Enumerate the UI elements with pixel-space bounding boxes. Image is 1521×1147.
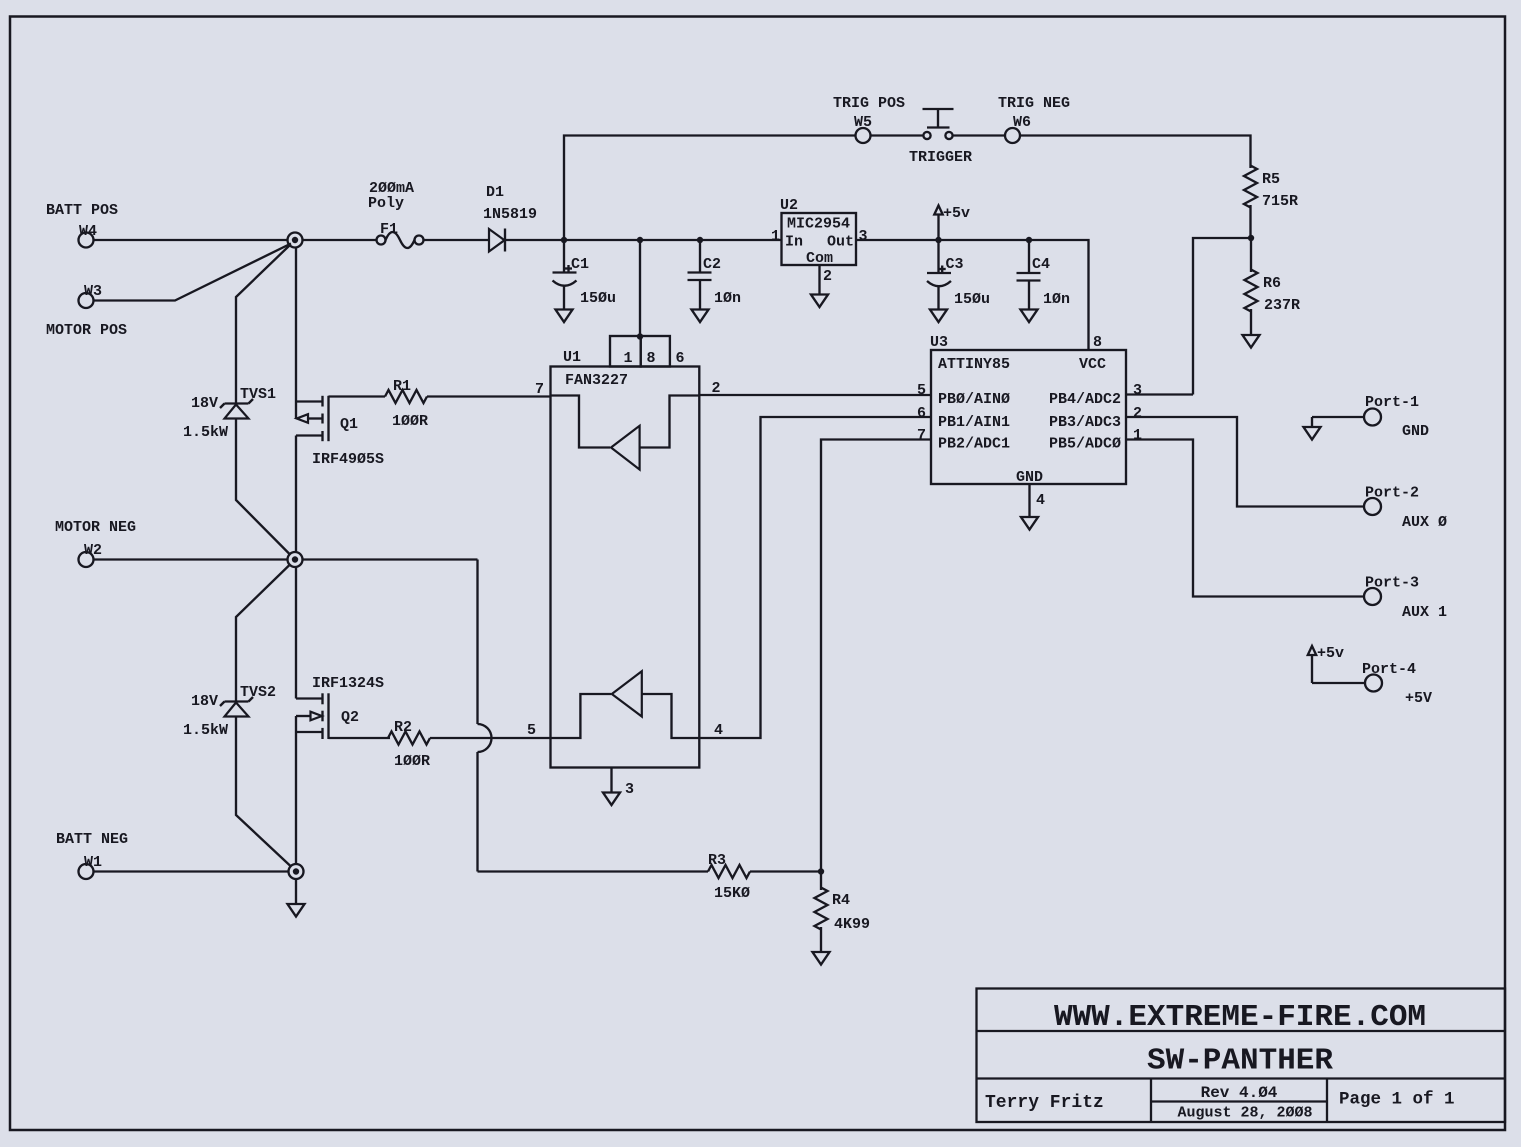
wire C4 tap to U3 VCC pin 8 — [1029, 240, 1089, 350]
mcu U3 ATTINY85 — [930, 334, 1126, 486]
wire node BATTPOS to Q1 source — [295, 248, 297, 402]
junction dot C4 tap — [1026, 237, 1032, 243]
svg-text:AUX Ø: AUX Ø — [1402, 514, 1447, 531]
junction dot +5v node — [935, 237, 941, 243]
title text author — [985, 1093, 1104, 1113]
wire W1 to node BATTNEG — [94, 870, 289, 872]
svg-text:C3: C3 — [946, 256, 964, 273]
regulator U2 MIC2954 — [780, 197, 856, 267]
svg-text:R5: R5 — [1262, 171, 1280, 188]
node BATTNEG junction — [289, 864, 304, 879]
port Port-3 AUX 1 — [1364, 575, 1447, 622]
wire W2 to node MOTORNEG — [94, 558, 288, 560]
svg-text:7: 7 — [535, 381, 544, 398]
svg-text:18V: 18V — [191, 395, 218, 412]
svg-text:2: 2 — [712, 380, 721, 397]
svg-text:4: 4 — [714, 722, 723, 739]
svg-text:2: 2 — [1133, 405, 1142, 422]
svg-text:ATTINY85: ATTINY85 — [938, 356, 1010, 373]
terminal W1 BATT NEG — [56, 831, 128, 879]
wire Q1 drain to node MOTORNEG — [295, 436, 297, 553]
U1 lower buffer channel — [551, 671, 700, 738]
svg-text:Port-3: Port-3 — [1365, 575, 1419, 592]
wire node BATTPOS to F1 — [303, 239, 377, 241]
wire U1 pin 4 to U3 pin 6 — [699, 405, 931, 739]
svg-text:237R: 237R — [1264, 297, 1300, 314]
svg-text:15Øu: 15Øu — [954, 291, 990, 308]
wire R1 to U1 pin 7 — [427, 381, 551, 398]
resistor R5 715R — [1244, 166, 1298, 239]
svg-text:1: 1 — [1133, 427, 1142, 444]
TVS diode TVS2 18V 1.5kW — [183, 684, 276, 739]
svg-text:C4: C4 — [1032, 256, 1050, 273]
title block frame — [977, 989, 1506, 1123]
svg-text:PB2/ADC1: PB2/ADC1 — [938, 436, 1010, 453]
svg-text:PB5/ADCØ: PB5/ADCØ — [1049, 436, 1121, 453]
junction dot C1 tap — [561, 237, 567, 243]
wire Q2 gate to R2 — [329, 737, 391, 739]
svg-text:Com: Com — [806, 250, 833, 267]
svg-text:6: 6 — [917, 405, 926, 422]
wire switch to W6 — [953, 134, 1006, 136]
wire node BATTPOS to TVS1 — [236, 245, 291, 404]
wire U3 pin 1 to Port-3 — [1126, 427, 1364, 597]
svg-text:W3: W3 — [84, 283, 102, 300]
svg-text:U1: U1 — [563, 349, 581, 366]
wire F1 to D1 — [424, 239, 490, 241]
wire node ADC1 up to U3 pin 7 — [821, 427, 931, 872]
resistor R2 100R — [388, 719, 430, 770]
svg-text:1Øn: 1Øn — [1043, 291, 1070, 308]
svg-text:IRF1324S: IRF1324S — [312, 675, 384, 692]
ground under C3 — [930, 310, 947, 323]
transistor Q2 IRF1324S — [296, 675, 384, 739]
diode D1 1N5819 — [483, 184, 537, 252]
wire W3 to node BATTPOS — [94, 244, 292, 301]
wire TVS1 to node MOTORNEG — [236, 419, 291, 556]
svg-text:Q2: Q2 — [341, 709, 359, 726]
svg-text:PBØ/AINØ: PBØ/AINØ — [938, 391, 1010, 408]
switch TRIGGER — [909, 109, 972, 166]
wire node MOTORNEG to TVS2 — [236, 564, 291, 702]
node BATTPOS junction — [288, 233, 303, 248]
svg-text:Port-2: Port-2 — [1365, 485, 1419, 502]
svg-text:Page 1 of 1: Page 1 of 1 — [1339, 1090, 1455, 1110]
resistor R6 237R — [1245, 238, 1301, 335]
svg-text:Out: Out — [827, 234, 854, 251]
wire sense drop vertical with hop — [478, 560, 492, 872]
fuse F1 — [368, 180, 424, 248]
svg-text:TVS1: TVS1 — [240, 386, 276, 403]
U1 upper buffer channel — [551, 396, 700, 470]
wire U1 pin 2 to U3 pin 5 — [699, 380, 931, 399]
svg-text:U2: U2 — [780, 197, 798, 214]
svg-text:GND: GND — [1016, 469, 1043, 486]
svg-text:6: 6 — [676, 350, 685, 367]
svg-text:R1: R1 — [393, 378, 411, 395]
ground under C1 — [556, 310, 573, 323]
svg-text:+5v: +5v — [943, 205, 970, 222]
svg-text:1ØØR: 1ØØR — [392, 413, 428, 430]
svg-text:2: 2 — [823, 268, 832, 285]
wire U2 pin 3 to +5v node — [856, 228, 939, 245]
svg-text:BATT POS: BATT POS — [46, 202, 118, 219]
svg-text:BATT NEG: BATT NEG — [56, 831, 128, 848]
wire Port-1 to ground — [1312, 417, 1364, 427]
wire node MOTORNEG to Q2 drain — [295, 567, 297, 699]
junction dot U1 supply tap — [637, 237, 643, 243]
terminal W2 MOTOR NEG — [55, 519, 136, 567]
junction dot divider node — [1248, 235, 1254, 241]
wire node MOTORNEG to sense drop — [303, 558, 478, 560]
svg-text:IRF49Ø5S: IRF49Ø5S — [312, 451, 384, 468]
junction dot node ADC1 — [818, 868, 824, 874]
svg-text:PB3/ADC3: PB3/ADC3 — [1049, 414, 1121, 431]
svg-text:C1: C1 — [571, 256, 589, 273]
svg-text:W1: W1 — [84, 854, 102, 871]
svg-text:1.5kW: 1.5kW — [183, 424, 228, 441]
transistor Q1 IRF4905S — [296, 396, 384, 468]
svg-text:+5V: +5V — [1405, 690, 1432, 707]
ground under C2 — [692, 310, 709, 323]
title text page — [1339, 1090, 1455, 1110]
svg-text:W2: W2 — [84, 542, 102, 559]
U3 pin 4 ground — [1021, 484, 1045, 530]
svg-text:GND: GND — [1402, 423, 1429, 440]
title text SW-PANTHER — [1147, 1044, 1333, 1079]
junction dot C2 tap — [697, 237, 703, 243]
svg-text:VCC: VCC — [1079, 356, 1106, 373]
svg-text:Q1: Q1 — [340, 416, 358, 433]
svg-text:W5: W5 — [854, 114, 872, 131]
terminal W6 TRIG NEG — [998, 95, 1070, 143]
driver U1 FAN3227 — [551, 336, 700, 768]
svg-text:Rev 4.Ø4: Rev 4.Ø4 — [1201, 1084, 1278, 1102]
+5v supply arrow — [934, 205, 970, 240]
svg-text:5: 5 — [527, 722, 536, 739]
svg-text:8: 8 — [1093, 334, 1102, 351]
wire +5v to Port-4 — [1312, 682, 1365, 684]
wire U3 pin 3 stub — [1126, 382, 1193, 399]
wire VBATT up to trigger rail — [564, 136, 856, 241]
svg-text:R2: R2 — [394, 719, 412, 736]
svg-text:+5v: +5v — [1317, 645, 1344, 662]
wire W4 to node BATTPOS — [94, 239, 288, 241]
svg-text:Port-1: Port-1 — [1365, 394, 1419, 411]
wire TVS2 to node BATTNEG — [236, 717, 291, 867]
wire U1 tap to C2 tap — [640, 239, 700, 241]
svg-text:18V: 18V — [191, 693, 218, 710]
svg-text:W4: W4 — [79, 223, 97, 240]
svg-text:Port-4: Port-4 — [1362, 661, 1416, 678]
resistor R3 15K0 — [708, 852, 750, 902]
wire W6 to R5 — [1020, 136, 1251, 169]
svg-text:7: 7 — [917, 427, 926, 444]
terminal W5 TRIG POS — [833, 95, 905, 143]
svg-text:3: 3 — [625, 781, 634, 798]
svg-text:15KØ: 15KØ — [714, 885, 750, 902]
wire C1 tap to U1 tap — [564, 239, 640, 241]
+5v arrow at Port-4 — [1308, 645, 1344, 683]
svg-text:TVS2: TVS2 — [240, 684, 276, 701]
svg-text:PB4/ADC2: PB4/ADC2 — [1049, 391, 1121, 408]
svg-text:1Øn: 1Øn — [714, 290, 741, 307]
svg-text:MOTOR POS: MOTOR POS — [46, 322, 127, 339]
svg-text:1ØØR: 1ØØR — [394, 753, 430, 770]
wire rail to U1 pins 1 8 — [637, 240, 643, 340]
svg-text:1: 1 — [771, 228, 780, 245]
title text date — [1177, 1105, 1312, 1122]
wire C2 tap to U2 pin 1 — [700, 228, 782, 245]
ground under R4 — [813, 952, 830, 965]
port Port-1 GND — [1364, 394, 1429, 440]
wire Q2 source to node BATTNEG — [295, 732, 297, 864]
svg-text:TRIG POS: TRIG POS — [833, 95, 905, 112]
svg-text:4K99: 4K99 — [834, 916, 870, 933]
svg-text:3: 3 — [859, 228, 868, 245]
svg-text:PB1/AIN1: PB1/AIN1 — [938, 414, 1010, 431]
resistor R1 100R — [385, 378, 428, 430]
wire D1 to node VBATT — [505, 239, 564, 241]
ground under R6 — [1243, 335, 1260, 348]
capacitor C3 150u — [927, 240, 990, 310]
svg-text:5: 5 — [917, 382, 926, 399]
terminal W3 MOTOR POS — [46, 283, 127, 339]
capacitor C4 10n — [1017, 240, 1071, 310]
resistor R4 4K99 — [815, 872, 871, 953]
TVS diode TVS1 18V 1.5kW — [183, 386, 276, 441]
svg-text:15Øu: 15Øu — [580, 290, 616, 307]
svg-text:715R: 715R — [1262, 193, 1298, 210]
capacitor C2 10n — [688, 240, 742, 310]
wire Q1 gate to R1 — [329, 395, 386, 397]
svg-text:TRIG NEG: TRIG NEG — [998, 95, 1070, 112]
svg-text:TRIGGER: TRIGGER — [909, 149, 972, 166]
svg-text:1N5819: 1N5819 — [483, 206, 537, 223]
svg-text:F1: F1 — [380, 221, 398, 238]
svg-text:Poly: Poly — [368, 195, 404, 212]
svg-text:FAN3227: FAN3227 — [565, 372, 628, 389]
U2 pin 2 ground — [811, 265, 832, 307]
svg-text:3: 3 — [1133, 382, 1142, 399]
wire W5 to switch — [871, 134, 924, 136]
svg-text:R3: R3 — [708, 852, 726, 869]
svg-text:1: 1 — [624, 350, 633, 367]
title text revision — [1201, 1084, 1278, 1102]
svg-text:D1: D1 — [486, 184, 504, 201]
port Port-4 +5V — [1362, 661, 1432, 707]
svg-text:MIC2954: MIC2954 — [787, 216, 850, 233]
svg-text:In: In — [785, 234, 803, 251]
wire R3 to node ADC1 — [750, 870, 821, 872]
terminal W4 BATT POS — [46, 202, 118, 248]
ground at Port-1 — [1304, 427, 1321, 440]
title text website — [1054, 1000, 1426, 1035]
svg-text:WWW.EXTREME-FIRE.COM: WWW.EXTREME-FIRE.COM — [1054, 1000, 1426, 1035]
svg-text:SW-PANTHER: SW-PANTHER — [1147, 1044, 1333, 1079]
wire sense to R3 — [478, 870, 709, 872]
svg-text:AUX 1: AUX 1 — [1402, 604, 1447, 621]
svg-text:Terry Fritz: Terry Fritz — [985, 1093, 1104, 1113]
svg-text:C2: C2 — [703, 256, 721, 273]
node MOTORNEG junction — [288, 552, 303, 567]
wire divider node to U3 pin 3 — [1193, 238, 1251, 395]
ground under C4 — [1021, 310, 1038, 323]
svg-text:MOTOR NEG: MOTOR NEG — [55, 519, 136, 536]
port Port-2 AUX 0 — [1364, 485, 1447, 532]
svg-text:4: 4 — [1036, 492, 1045, 509]
svg-text:1.5kW: 1.5kW — [183, 722, 228, 739]
svg-text:R6: R6 — [1263, 275, 1281, 292]
svg-text:August 28, 2ØØ8: August 28, 2ØØ8 — [1177, 1105, 1312, 1122]
ground at BATT NEG — [288, 879, 305, 917]
wire +5v node to C4 tap — [939, 239, 1030, 241]
svg-text:R4: R4 — [832, 892, 850, 909]
U1 pin 3 ground — [603, 768, 634, 806]
wire R2 to U1 pin 5 — [430, 722, 551, 739]
svg-text:W6: W6 — [1013, 114, 1031, 131]
capacitor C1 150u — [553, 240, 617, 310]
svg-text:U3: U3 — [930, 334, 948, 351]
wire U3 pin 2 to Port-2 — [1126, 405, 1364, 507]
svg-text:8: 8 — [647, 350, 656, 367]
